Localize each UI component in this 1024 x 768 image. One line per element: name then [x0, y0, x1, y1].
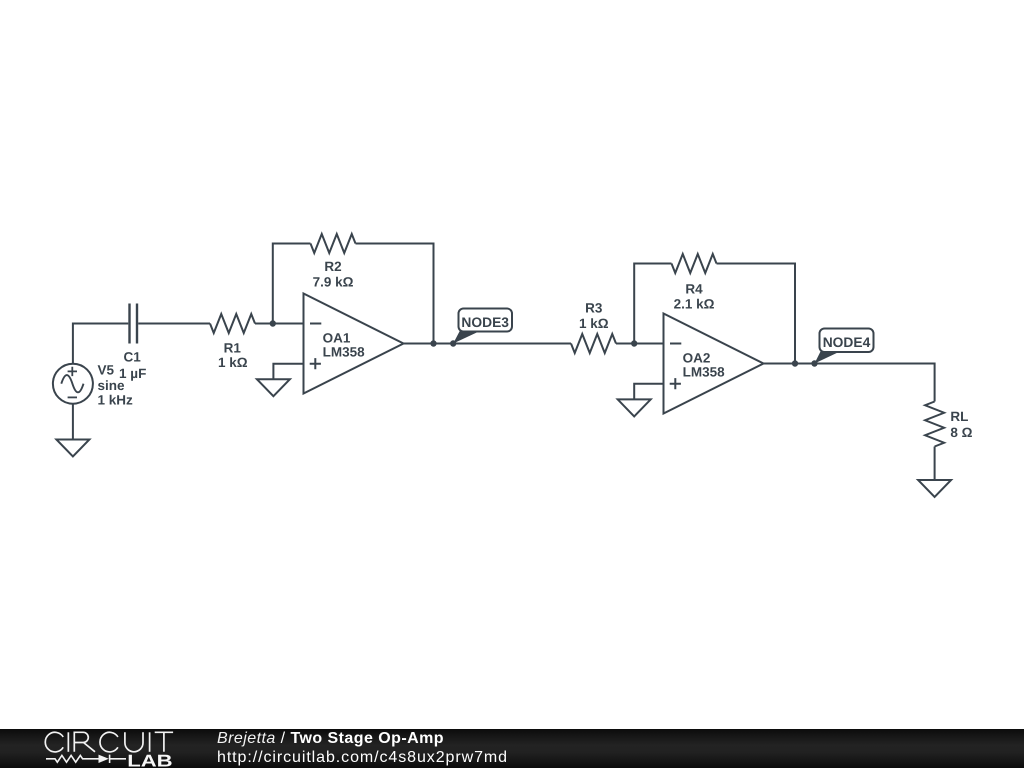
svg-text:2.1 kΩ: 2.1 kΩ — [674, 297, 715, 312]
wire feedback loop 2 right vertical to output — [717, 264, 796, 364]
node NODE4 flag — [815, 329, 874, 364]
wire OA1 output to R3 — [404, 343, 572, 345]
V5 minus polarity — [68, 396, 77, 398]
logo diode — [99, 755, 109, 763]
ground at OA1 — [257, 379, 290, 396]
logo letter U — [125, 732, 143, 752]
node junction dot at OA1 input — [270, 320, 276, 326]
svg-text:RL: RL — [950, 409, 968, 424]
junction dot at OA2 input — [631, 340, 637, 346]
svg-text:LM358: LM358 — [683, 364, 726, 379]
logo letter I — [149, 732, 151, 752]
ground at V5 — [56, 440, 89, 457]
C1 value label — [119, 350, 146, 382]
wire RL to ground — [934, 447, 936, 481]
voltage source V5 — [53, 364, 93, 404]
svg-text:V5: V5 — [98, 363, 115, 378]
wire R3 to OA2 inverting input — [616, 343, 664, 345]
logo resistor squiggle — [46, 755, 99, 762]
V5 sine symbol — [61, 375, 83, 392]
footer bar — [0, 729, 1024, 768]
resistor R3 — [571, 334, 616, 353]
R4 label — [674, 281, 715, 311]
svg-text:NODE4: NODE4 — [823, 335, 871, 350]
CircuitLab logo — [0, 728, 200, 768]
R1 label — [218, 340, 248, 370]
wire V5 to ground — [72, 404, 74, 440]
resistor R1 — [210, 314, 255, 333]
wire feedback loop right vertical to output — [356, 244, 434, 344]
svg-text:OA1: OA1 — [323, 330, 351, 345]
V5 plus polarity — [68, 367, 77, 376]
capacitor C1 — [130, 304, 138, 344]
OA2 plus input symbol — [670, 378, 681, 389]
junction dot NODE3 attach — [450, 340, 456, 346]
logo letter T — [155, 732, 173, 752]
wire feedback loop 2 left vertical — [634, 264, 671, 344]
svg-text:LM358: LM358 — [323, 344, 366, 359]
resistor R4 — [672, 254, 717, 273]
op-amp OA1 — [304, 294, 404, 394]
wire feedback loop left vertical — [273, 244, 311, 324]
logo letter I — [67, 732, 69, 752]
OA1 minus input symbol — [310, 323, 321, 325]
svg-text:LAB: LAB — [127, 752, 172, 768]
wire C1 to R1 — [138, 323, 210, 325]
OA2 label — [683, 350, 726, 379]
wire OA2 output to RL — [764, 364, 935, 402]
ground at OA2 — [618, 399, 651, 416]
logo letter C — [100, 732, 118, 752]
svg-text:8 Ω: 8 Ω — [950, 425, 972, 440]
svg-text:1 kΩ: 1 kΩ — [579, 316, 609, 331]
R3 label — [579, 301, 609, 332]
resistor RL (vertical) — [925, 402, 944, 447]
OA1 label — [323, 330, 366, 359]
R2 label — [313, 259, 354, 290]
footer title — [217, 730, 444, 748]
junction dot feedback/output OA1 — [430, 340, 436, 346]
junction dot NODE4 attach — [811, 360, 817, 366]
svg-text:7.9 kΩ: 7.9 kΩ — [313, 275, 354, 290]
wire R1 to OA1 inverting input — [255, 323, 304, 325]
wire OA2 noninverting input to ground — [634, 384, 663, 400]
svg-text:R4: R4 — [685, 281, 703, 296]
V5 label — [98, 363, 134, 408]
svg-text:R3: R3 — [585, 301, 603, 316]
svg-text:C1: C1 — [123, 350, 141, 365]
wire OA1 noninverting input to ground — [273, 364, 303, 380]
node NODE3 flag — [453, 309, 512, 344]
svg-text:R2: R2 — [324, 259, 341, 274]
op-amp OA2 — [664, 314, 764, 414]
logo letter R — [74, 732, 95, 752]
OA1 plus input symbol — [310, 358, 321, 369]
ground at RL — [918, 480, 951, 497]
svg-text:sine: sine — [98, 378, 126, 393]
junction dot feedback/output OA2 — [792, 360, 798, 366]
footer url — [217, 749, 508, 767]
OA2 minus input symbol — [670, 343, 681, 345]
svg-text:1 kΩ: 1 kΩ — [218, 355, 248, 370]
svg-text:1 kHz: 1 kHz — [98, 392, 134, 407]
svg-text:R1: R1 — [224, 340, 242, 355]
logo letter C — [45, 732, 63, 752]
svg-text:OA2: OA2 — [683, 350, 711, 365]
resistor R2 — [311, 234, 356, 253]
svg-text:NODE3: NODE3 — [461, 315, 509, 330]
RL label — [950, 409, 972, 440]
wire V5 top to C1 — [73, 324, 128, 364]
